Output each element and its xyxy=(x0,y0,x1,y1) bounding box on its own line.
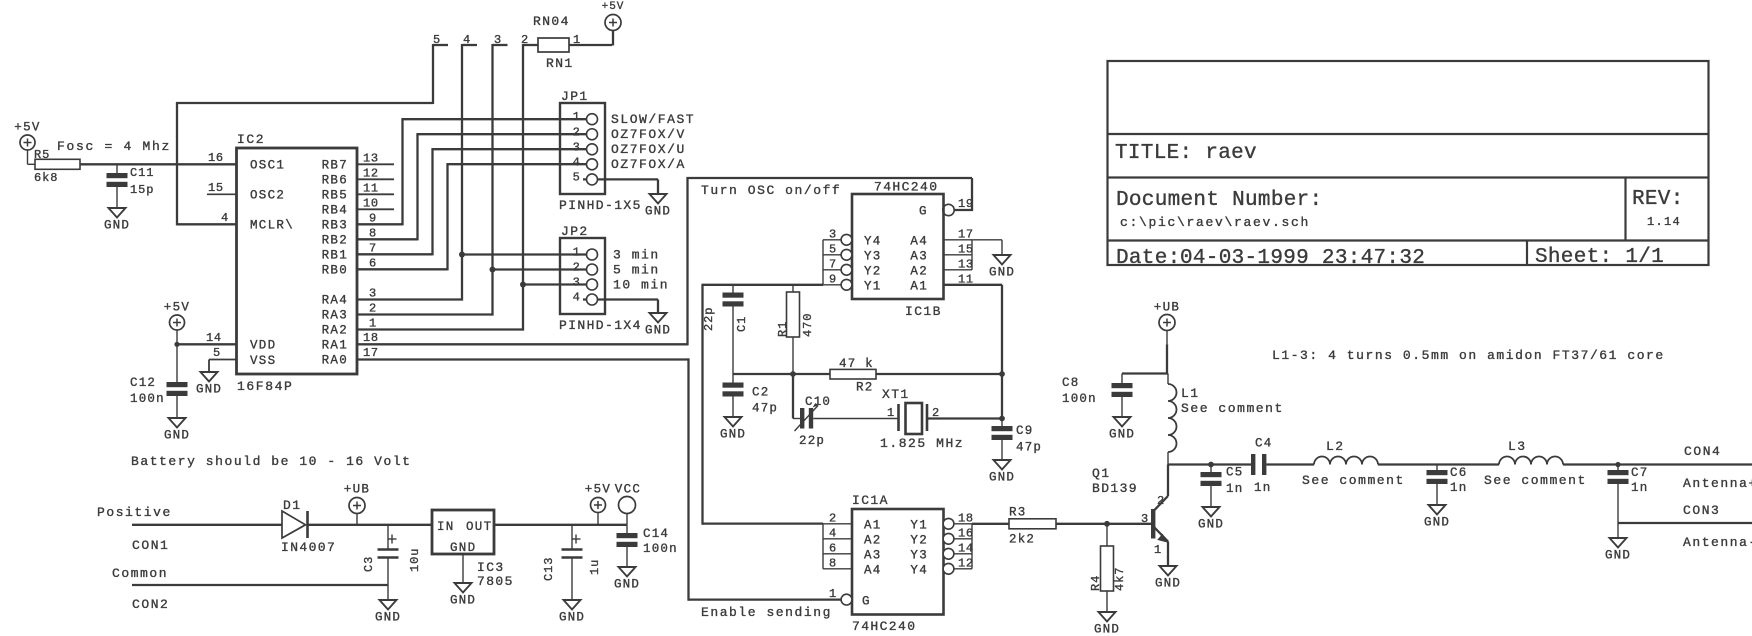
svg-text:Document Number:: Document Number: xyxy=(1116,189,1322,212)
svg-text:GND: GND xyxy=(720,428,746,442)
svg-text:OZ7FOX/V: OZ7FOX/V xyxy=(611,127,686,142)
svg-text:See comment: See comment xyxy=(1181,401,1284,416)
svg-text:1.825 MHz: 1.825 MHz xyxy=(880,436,964,451)
svg-text:2: 2 xyxy=(573,125,581,139)
svg-text:GND: GND xyxy=(104,219,130,233)
svg-text:L1-3: 4 turns 0.5mm on amidon: L1-3: 4 turns 0.5mm on amidon FT37/61 co… xyxy=(1272,348,1665,363)
svg-text:2: 2 xyxy=(1157,494,1165,508)
svg-text:Sheet: 1/1: Sheet: 1/1 xyxy=(1535,246,1664,269)
svg-text:8: 8 xyxy=(369,226,377,240)
svg-text:1: 1 xyxy=(573,33,581,47)
svg-text:16: 16 xyxy=(208,151,224,165)
svg-text:REV:: REV: xyxy=(1632,188,1684,211)
svg-text:9: 9 xyxy=(369,211,377,225)
svg-text:Y4: Y4 xyxy=(864,235,882,249)
svg-text:OSC2: OSC2 xyxy=(250,189,285,203)
svg-text:GND: GND xyxy=(1424,516,1450,530)
svg-text:Positive: Positive xyxy=(97,505,172,520)
svg-text:IC1B: IC1B xyxy=(905,304,942,319)
svg-text:GND: GND xyxy=(989,266,1015,280)
svg-text:JP1: JP1 xyxy=(561,89,589,104)
svg-text:13: 13 xyxy=(363,151,379,165)
svg-text:18: 18 xyxy=(958,511,974,525)
svg-text:IC2: IC2 xyxy=(237,132,265,147)
svg-text:1n: 1n xyxy=(1631,481,1648,495)
svg-text:RB5: RB5 xyxy=(322,189,348,203)
svg-text:1: 1 xyxy=(1154,543,1162,557)
svg-text:2: 2 xyxy=(369,302,377,316)
svg-text:OUT: OUT xyxy=(466,520,492,534)
svg-text:5: 5 xyxy=(829,242,837,256)
svg-text:19: 19 xyxy=(958,197,974,211)
svg-text:A3: A3 xyxy=(910,250,928,264)
svg-text:GND: GND xyxy=(450,594,476,608)
svg-text:+5V: +5V xyxy=(14,121,40,135)
svg-text:C7: C7 xyxy=(1631,466,1648,480)
svg-text:1: 1 xyxy=(887,406,895,420)
svg-text:5: 5 xyxy=(213,346,221,360)
svg-text:GND: GND xyxy=(989,471,1015,485)
svg-text:RN1: RN1 xyxy=(546,56,574,71)
svg-text:+UB: +UB xyxy=(344,483,370,497)
svg-text:4: 4 xyxy=(463,33,471,47)
svg-text:GND: GND xyxy=(645,205,671,219)
svg-text:Turn OSC on/off: Turn OSC on/off xyxy=(701,183,841,198)
svg-text:RB4: RB4 xyxy=(322,204,348,218)
svg-text:C10: C10 xyxy=(805,395,831,409)
svg-text:GND: GND xyxy=(559,611,585,625)
svg-text:CON2: CON2 xyxy=(132,597,169,612)
svg-text:RB6: RB6 xyxy=(322,174,348,188)
svg-text:1: 1 xyxy=(573,110,581,124)
svg-text:VSS: VSS xyxy=(250,354,276,368)
svg-text:C4: C4 xyxy=(1255,437,1272,451)
svg-text:6: 6 xyxy=(829,541,837,555)
svg-text:18: 18 xyxy=(363,331,379,345)
svg-text:IN: IN xyxy=(437,520,455,534)
svg-text:Enable sending: Enable sending xyxy=(701,605,832,620)
svg-text:470: 470 xyxy=(801,313,815,337)
svg-text:IC1A: IC1A xyxy=(852,493,889,508)
svg-text:See comment: See comment xyxy=(1302,473,1405,488)
svg-text:22p: 22p xyxy=(702,307,716,331)
svg-text:RA1: RA1 xyxy=(322,339,348,353)
svg-text:GND: GND xyxy=(1605,549,1631,563)
svg-text:+UB: +UB xyxy=(1154,301,1180,315)
svg-text:C11: C11 xyxy=(130,166,154,180)
svg-text:A3: A3 xyxy=(864,549,882,563)
svg-text:OZ7FOX/U: OZ7FOX/U xyxy=(611,142,686,157)
svg-text:3: 3 xyxy=(573,140,581,154)
svg-text:3 min: 3 min xyxy=(613,248,660,263)
svg-text:GND: GND xyxy=(196,383,222,397)
svg-text:C5: C5 xyxy=(1226,466,1243,480)
svg-text:C8: C8 xyxy=(1062,376,1079,390)
svg-text:+5V: +5V xyxy=(602,1,625,13)
svg-text:1u: 1u xyxy=(588,559,602,575)
svg-text:L3: L3 xyxy=(1508,439,1526,454)
svg-text:10 min: 10 min xyxy=(613,278,669,293)
svg-text:4: 4 xyxy=(221,211,229,225)
svg-text:14: 14 xyxy=(958,541,974,555)
svg-text:A1: A1 xyxy=(910,280,928,294)
svg-text:RA0: RA0 xyxy=(322,354,348,368)
svg-text:C6: C6 xyxy=(1450,466,1467,480)
svg-text:SLOW/FAST: SLOW/FAST xyxy=(611,112,695,127)
svg-text:BD139: BD139 xyxy=(1092,481,1138,496)
svg-text:12: 12 xyxy=(958,556,974,570)
svg-text:C3: C3 xyxy=(362,556,376,572)
svg-text:C14: C14 xyxy=(643,527,669,541)
svg-text:Antenna+: Antenna+ xyxy=(1683,476,1752,491)
svg-text:CON3: CON3 xyxy=(1683,503,1720,518)
svg-text:8: 8 xyxy=(829,556,837,570)
svg-text:100n: 100n xyxy=(643,542,678,556)
svg-text:RA3: RA3 xyxy=(322,309,348,323)
svg-text:22p: 22p xyxy=(799,434,825,448)
svg-text:6: 6 xyxy=(369,256,377,270)
svg-text:VCC: VCC xyxy=(615,483,641,497)
svg-text:3: 3 xyxy=(369,287,377,301)
svg-text:L2: L2 xyxy=(1326,439,1344,454)
svg-text:3: 3 xyxy=(494,33,502,47)
svg-text:4: 4 xyxy=(829,526,837,540)
svg-text:RB0: RB0 xyxy=(322,264,348,278)
svg-text:Y2: Y2 xyxy=(864,265,882,279)
svg-text:GND: GND xyxy=(614,578,640,592)
svg-text:4: 4 xyxy=(573,155,581,169)
svg-text:D1: D1 xyxy=(283,498,301,513)
svg-text:15: 15 xyxy=(208,181,224,195)
svg-text:14: 14 xyxy=(206,331,222,345)
svg-text:15p: 15p xyxy=(130,183,154,197)
svg-text:GND: GND xyxy=(1109,428,1135,442)
svg-text:R4: R4 xyxy=(1089,575,1103,591)
svg-text:1.14: 1.14 xyxy=(1647,215,1681,229)
svg-text:RB1: RB1 xyxy=(322,249,348,263)
svg-text:G: G xyxy=(919,205,928,219)
svg-text:Y3: Y3 xyxy=(910,549,928,563)
svg-text:1: 1 xyxy=(829,587,837,601)
svg-text:C13: C13 xyxy=(542,557,556,581)
svg-text:1: 1 xyxy=(573,246,581,260)
svg-text:Y1: Y1 xyxy=(864,280,882,294)
svg-text:OZ7FOX/A: OZ7FOX/A xyxy=(611,157,686,172)
svg-text:XT1: XT1 xyxy=(882,387,910,402)
svg-text:74HC240: 74HC240 xyxy=(874,180,938,195)
svg-text:7805: 7805 xyxy=(477,574,514,589)
svg-text:15: 15 xyxy=(958,242,974,256)
svg-text:4k7: 4k7 xyxy=(1113,567,1127,591)
svg-text:C2: C2 xyxy=(752,386,769,400)
svg-text:Common: Common xyxy=(112,566,168,581)
svg-text:A2: A2 xyxy=(864,534,882,548)
svg-text:TITLE: raev: TITLE: raev xyxy=(1115,142,1257,165)
svg-text:5: 5 xyxy=(573,170,581,184)
svg-text:+5V: +5V xyxy=(585,483,611,497)
svg-text:04-03-1999 23:47:32: 04-03-1999 23:47:32 xyxy=(1180,247,1425,270)
svg-text:47p: 47p xyxy=(752,402,778,416)
svg-text:5: 5 xyxy=(433,33,441,47)
svg-text:C12: C12 xyxy=(130,376,156,390)
svg-text:GND: GND xyxy=(375,611,401,625)
svg-text:MCLR\: MCLR\ xyxy=(250,219,294,233)
svg-text:Y4: Y4 xyxy=(910,564,928,578)
svg-text:GND: GND xyxy=(1198,518,1224,532)
svg-text:PINHD-1X4: PINHD-1X4 xyxy=(559,318,642,333)
svg-text:RB2: RB2 xyxy=(322,234,348,248)
svg-text:VDD: VDD xyxy=(250,339,276,353)
svg-text:Q1: Q1 xyxy=(1092,466,1110,481)
svg-text:Y1: Y1 xyxy=(910,519,928,533)
svg-text:See comment: See comment xyxy=(1484,473,1587,488)
svg-text:6k8: 6k8 xyxy=(34,171,58,185)
svg-text:c:\pic\raev\raev.sch: c:\pic\raev\raev.sch xyxy=(1120,215,1310,230)
svg-text:17: 17 xyxy=(363,346,379,360)
svg-text:C1: C1 xyxy=(735,316,749,332)
svg-text:2: 2 xyxy=(829,511,837,525)
svg-text:A4: A4 xyxy=(910,235,928,249)
svg-text:GND: GND xyxy=(1094,623,1120,636)
svg-text:CON1: CON1 xyxy=(132,538,169,553)
svg-text:12: 12 xyxy=(363,166,379,180)
svg-text:GND: GND xyxy=(645,324,671,338)
svg-text:Fosc = 4 Mhz: Fosc = 4 Mhz xyxy=(57,139,171,154)
svg-text:RA2: RA2 xyxy=(322,324,348,338)
svg-text:RB7: RB7 xyxy=(322,159,348,173)
svg-text:5 min: 5 min xyxy=(613,263,660,278)
svg-text:PINHD-1X5: PINHD-1X5 xyxy=(559,198,642,213)
svg-text:A1: A1 xyxy=(864,519,882,533)
svg-text:47 k: 47 k xyxy=(839,357,874,371)
svg-text:3: 3 xyxy=(1141,512,1149,526)
svg-text:1n: 1n xyxy=(1254,481,1271,495)
svg-text:7: 7 xyxy=(369,241,377,255)
svg-text:17: 17 xyxy=(958,227,974,241)
svg-text:L1: L1 xyxy=(1181,386,1199,401)
svg-text:A2: A2 xyxy=(910,265,928,279)
svg-text:2k2: 2k2 xyxy=(1009,533,1035,547)
svg-text:Y2: Y2 xyxy=(910,534,928,548)
svg-text:74HC240: 74HC240 xyxy=(852,619,916,634)
svg-text:1n: 1n xyxy=(1450,481,1467,495)
svg-text:Battery should be 10 - 16 Volt: Battery should be 10 - 16 Volt xyxy=(131,454,412,469)
svg-text:1n: 1n xyxy=(1226,482,1243,496)
svg-text:47p: 47p xyxy=(1016,441,1042,455)
svg-text:R5: R5 xyxy=(34,148,50,162)
svg-text:R1: R1 xyxy=(776,321,790,337)
svg-text:1: 1 xyxy=(369,317,377,331)
svg-text:9: 9 xyxy=(829,272,837,286)
svg-text:16: 16 xyxy=(958,526,974,540)
svg-text:7: 7 xyxy=(829,257,837,271)
svg-text:JP2: JP2 xyxy=(561,224,589,239)
svg-text:GND: GND xyxy=(450,541,476,555)
svg-text:10: 10 xyxy=(363,196,379,210)
svg-text:16F84P: 16F84P xyxy=(237,379,293,394)
svg-text:R2: R2 xyxy=(856,381,873,395)
svg-text:OSC1: OSC1 xyxy=(250,159,285,173)
svg-text:RN04: RN04 xyxy=(533,14,570,29)
svg-text:4: 4 xyxy=(573,291,581,305)
svg-text:Date:: Date: xyxy=(1116,247,1181,270)
svg-text:2: 2 xyxy=(573,261,581,275)
svg-text:Y3: Y3 xyxy=(864,250,882,264)
svg-text:G: G xyxy=(862,595,871,609)
svg-text:100n: 100n xyxy=(130,392,165,406)
svg-text:100n: 100n xyxy=(1062,392,1097,406)
svg-text:11: 11 xyxy=(363,181,379,195)
svg-text:R3: R3 xyxy=(1009,506,1026,520)
svg-text:IC3: IC3 xyxy=(477,560,505,575)
svg-text:IN4007: IN4007 xyxy=(281,540,336,555)
svg-text:A4: A4 xyxy=(864,564,882,578)
svg-text:13: 13 xyxy=(958,257,974,271)
svg-text:CON4: CON4 xyxy=(1684,444,1721,459)
svg-text:+5V: +5V xyxy=(164,301,190,315)
svg-text:C9: C9 xyxy=(1016,424,1033,438)
svg-text:GND: GND xyxy=(164,429,190,443)
svg-text:RB3: RB3 xyxy=(322,219,348,233)
svg-text:GND: GND xyxy=(1155,577,1181,591)
svg-text:Antenna-: Antenna- xyxy=(1683,535,1752,550)
svg-text:RA4: RA4 xyxy=(322,294,348,308)
svg-text:3: 3 xyxy=(829,227,837,241)
svg-text:3: 3 xyxy=(573,276,581,290)
svg-text:10u: 10u xyxy=(408,548,422,572)
